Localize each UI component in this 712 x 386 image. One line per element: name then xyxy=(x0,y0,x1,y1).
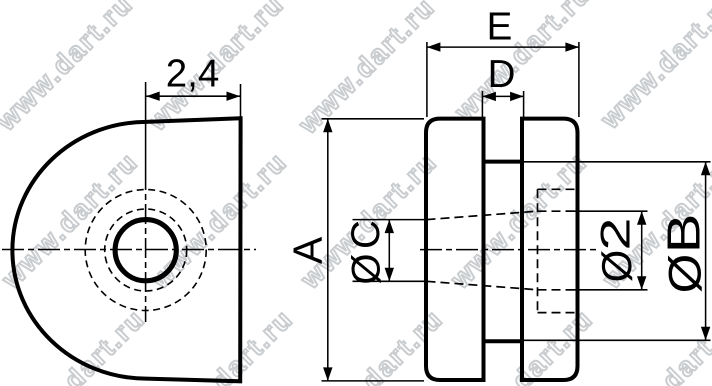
dimension 2 bottom arrow xyxy=(637,276,646,290)
dimension B top arrow xyxy=(701,162,710,176)
dimension 2 top arrow xyxy=(637,211,646,225)
dimension C extension top xyxy=(353,219,425,221)
dimension A extension bottom xyxy=(322,380,425,382)
svg-text:C: C xyxy=(344,220,388,249)
hidden large-end bottom dash xyxy=(538,289,578,291)
dimension D line xyxy=(482,95,523,97)
svg-text:B: B xyxy=(659,214,710,254)
dimension B bottom arrow xyxy=(701,327,710,341)
dimension C line xyxy=(388,220,390,282)
dimension 2 extension bottom xyxy=(566,289,648,291)
dimension C extension bottom xyxy=(353,280,425,282)
dimension D extension right xyxy=(523,91,525,117)
svg-text:Ø: Ø xyxy=(660,254,711,294)
dimension A bottom arrow xyxy=(323,367,332,381)
dimension 2,4 extension right xyxy=(240,84,242,118)
dimension 2,4 line xyxy=(146,95,240,97)
svg-text:E: E xyxy=(487,6,513,49)
right flange outline xyxy=(522,119,578,380)
dimension E left arrow xyxy=(427,42,441,51)
hole circle xyxy=(115,220,176,281)
left view outline xyxy=(12,118,240,381)
neck bottom edge xyxy=(484,339,523,343)
dimension 2,4 left arrow xyxy=(146,92,160,101)
dimension C bottom arrow xyxy=(385,268,394,282)
dimension A line xyxy=(327,119,329,381)
hidden taper bottom xyxy=(427,281,538,290)
svg-text:Ø: Ø xyxy=(593,250,640,283)
hidden bore top xyxy=(538,188,576,190)
hidden taper top xyxy=(427,211,538,219)
neck top edge xyxy=(484,160,523,164)
dimension E line xyxy=(427,46,579,48)
svg-text:2: 2 xyxy=(591,217,638,250)
dimension A top arrow xyxy=(323,119,332,133)
svg-text:2,4: 2,4 xyxy=(166,53,220,96)
dimension A extension top xyxy=(322,118,425,120)
outer dashed circle xyxy=(85,190,206,311)
hidden bore vertical xyxy=(537,189,539,312)
dimension 2,4 right arrow xyxy=(227,92,241,101)
dimension E extension left xyxy=(426,42,428,117)
svg-text:D: D xyxy=(488,53,516,96)
left flange outline xyxy=(426,119,484,380)
dimension D left arrow xyxy=(482,92,496,101)
dimension E right arrow xyxy=(565,42,579,51)
dimension D extension left xyxy=(481,91,483,117)
dimension B extension bottom xyxy=(522,339,711,341)
dimension 2 extension top xyxy=(566,210,648,212)
dimension B line xyxy=(705,162,707,340)
vertical centerline xyxy=(145,170,147,322)
hidden bore bottom xyxy=(538,312,576,314)
dimension 2 line xyxy=(641,211,643,290)
svg-text:Ø: Ø xyxy=(345,253,389,284)
horizontal centerline xyxy=(2,249,256,251)
dimension D right arrow xyxy=(510,92,523,101)
dimension E extension right xyxy=(578,42,580,117)
svg-text:A: A xyxy=(285,236,331,264)
vertical centerline extension xyxy=(145,82,147,170)
dimension C top arrow xyxy=(385,220,394,234)
right view centerline xyxy=(420,249,597,251)
hidden large-end top dash xyxy=(538,210,578,212)
dimension B extension top xyxy=(522,161,711,163)
inner dashed circle xyxy=(105,209,187,291)
